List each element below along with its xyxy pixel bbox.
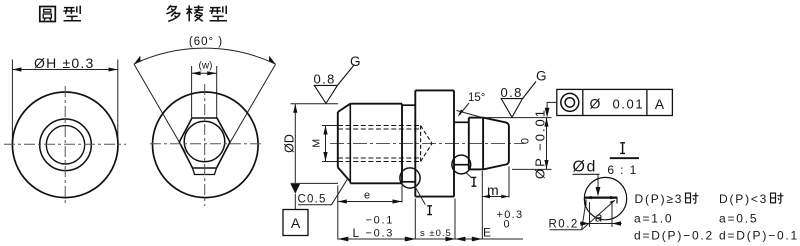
- svg-text:(w): (w): [199, 61, 213, 72]
- svg-text:D(P)≥3: D(P)≥3: [635, 192, 684, 206]
- bottom chain dim line: [338, 238, 523, 240]
- svg-text:M: M: [311, 139, 323, 148]
- svg-text:A: A: [291, 215, 301, 231]
- angle arc right arrowhead: [267, 56, 278, 65]
- svg-text:a=0.5: a=0.5: [719, 212, 758, 226]
- dimension M dim line with arrows: [325, 126, 327, 162]
- dimension PhiP top extension line: [486, 117, 552, 119]
- svg-text:a: a: [595, 209, 602, 224]
- svg-text:a=1.0: a=1.0: [634, 212, 673, 226]
- angle 15deg reference line: [457, 111, 485, 119]
- socket drill point hidden lower: [421, 144, 432, 162]
- svg-text:E: E: [483, 226, 491, 240]
- detail boundary circle: [584, 177, 626, 219]
- dimension w right extension line: [216, 66, 218, 118]
- dimension M upper extension stub: [322, 125, 338, 127]
- svg-text:G: G: [350, 54, 361, 69]
- title 圆型 (round type) char 圆: [40, 7, 56, 22]
- svg-text:A: A: [655, 96, 665, 112]
- concentricity frame box: [557, 89, 673, 115]
- svg-text:−0.3: −0.3: [366, 228, 395, 240]
- flange bottom edge: [415, 196, 454, 198]
- arrow L right: [405, 237, 416, 242]
- pilot cylinder left face: [468, 118, 470, 170]
- thread hidden line upper inner: [338, 128, 421, 130]
- svg-text:Ø: Ø: [590, 96, 601, 112]
- detail tip flat chord with arrows: [584, 197, 617, 199]
- dimension e dim line with arrows: [338, 201, 402, 203]
- datum A box: [283, 210, 308, 236]
- detail a dim line with outside arrows: [580, 223, 622, 225]
- svg-text:C0.5: C0.5: [298, 194, 327, 206]
- neck bottom edge: [402, 181, 415, 183]
- chamfer dimension underline and leader: [298, 178, 348, 205]
- taper and tip outline: [483, 118, 509, 170]
- angle dimension arc with arrows: [134, 48, 276, 64]
- svg-text:G: G: [536, 69, 547, 84]
- svg-text:(60° ): (60° ): [189, 36, 223, 48]
- round view ring inner circle: [46, 126, 84, 164]
- svg-text:ØD: ØD: [283, 134, 297, 153]
- angle right leg line through hex vertex: [224, 64, 275, 152]
- svg-text:Ød: Ød: [573, 159, 597, 176]
- dimension PhiD top extension line: [291, 103, 339, 105]
- detail a dim extension lines: [589, 202, 591, 227]
- dimension PhiP bottom extension line: [512, 168, 552, 170]
- flange top edge: [415, 89, 454, 91]
- hex socket inscribed circle: [184, 121, 225, 162]
- detail tip side walls: [584, 198, 586, 204]
- svg-text:d=D(P)−0.2: d=D(P)−0.2: [634, 229, 714, 243]
- svg-text:L: L: [353, 226, 360, 240]
- chamfer end vertical line: [349, 104, 351, 184]
- datum A connector line: [294, 194, 296, 210]
- surface finish symbol left: [314, 65, 354, 104]
- svg-text:0: 0: [504, 219, 510, 231]
- dimension e right extension line: [401, 186, 403, 203]
- detail balloon I at groove: [452, 155, 471, 174]
- dimension PhiD bottom extension line: [291, 182, 339, 184]
- bottom chain flange-left extension line: [414, 199, 416, 240]
- thread cylinder top edge: [350, 103, 402, 105]
- arrow E left: [455, 237, 466, 242]
- detail Phid underline: [573, 173, 600, 175]
- svg-text:ØP −0.01: ØP −0.01: [533, 108, 548, 179]
- dimension PhiP dim line with arrows: [546, 118, 548, 170]
- arrow s right outside: [406, 237, 415, 241]
- svg-text:15°: 15°: [468, 92, 485, 104]
- svg-text:D(P)<3: D(P)<3: [719, 192, 768, 206]
- title 多棱型 char 多: [166, 5, 179, 21]
- thread hidden line lower outer: [338, 161, 421, 163]
- surface finish symbol right: [501, 82, 536, 118]
- datum A filled triangle: [291, 184, 300, 194]
- taper base vertical line: [482, 118, 484, 170]
- pilot cylinder top edge: [469, 117, 483, 119]
- title 圆型 char 型: [63, 6, 81, 21]
- flange left face: [414, 90, 416, 196]
- part chamfer top edge: [338, 104, 351, 112]
- bottom chain flange-right extension line: [454, 199, 456, 240]
- detail R0.2 leaders: [582, 200, 587, 230]
- groove top edge: [454, 121, 469, 123]
- part chamfer bottom edge: [338, 167, 351, 181]
- thread end vertical line: [401, 104, 403, 184]
- round view outer circle: [12, 92, 118, 198]
- hex view vertical centerline: [204, 84, 206, 206]
- socket bottom hidden vertical: [420, 126, 422, 162]
- angle left leg line through hex vertex: [134, 64, 185, 152]
- groove bottom edge: [454, 164, 469, 166]
- hex socket hexagon: [179, 118, 230, 168]
- dimension PhiH right extension line: [117, 60, 119, 145]
- round view vertical centerline: [64, 86, 66, 206]
- dimension w dim line: [192, 72, 217, 74]
- thread hidden line upper outer: [338, 125, 421, 127]
- svg-text:R0.2: R0.2: [549, 218, 579, 230]
- svg-text:0.8: 0.8: [314, 72, 336, 87]
- arrow E right: [472, 237, 483, 242]
- detail R0.2 underline: [550, 229, 582, 231]
- title 多棱型 char 棱: [186, 5, 203, 21]
- thread cylinder bottom edge: [350, 182, 402, 184]
- detail scale label I over 6:1: [620, 143, 625, 154]
- detail Phid leader with arrow: [597, 174, 599, 193]
- svg-text:+0.3: +0.3: [497, 209, 524, 221]
- thread hidden line lower inner: [338, 157, 421, 159]
- dimension PhiH left extension line: [11, 60, 13, 145]
- socket drill point hidden upper: [421, 126, 432, 144]
- svg-text:s ±0.5: s ±0.5: [420, 228, 452, 239]
- svg-text:6 : 1: 6 : 1: [607, 163, 637, 177]
- dimension M lower extension stub: [322, 161, 338, 163]
- dimension m dim line with arrows: [482, 196, 509, 198]
- neck top edge: [402, 104, 415, 106]
- dimension PhiH dim line with arrows: [12, 69, 117, 71]
- detail balloon I at thread end: [400, 168, 420, 188]
- svg-text:ØH ±0.3: ØH ±0.3: [34, 55, 94, 71]
- main view axis centerline: [330, 143, 524, 145]
- arrow L left: [338, 237, 349, 242]
- angle 15deg leader with arrow: [459, 103, 469, 115]
- bottom chain left extension line: [337, 186, 339, 240]
- svg-text:0.01: 0.01: [613, 97, 645, 112]
- concentricity frame leader: [547, 102, 557, 115]
- arrow s left at flange-right: [446, 237, 456, 242]
- dimension m right extension line: [508, 167, 510, 198]
- bottom chain taper-start extension line: [481, 171, 483, 240]
- hex socket bottom cone line: [193, 168, 217, 175]
- flange right face: [453, 90, 455, 196]
- hex view horizontal centerline: [150, 143, 262, 145]
- svg-text:−0.1: −0.1: [366, 215, 395, 227]
- round view ring outer circle: [40, 119, 92, 171]
- concentricity symbol circles: [561, 93, 579, 111]
- svg-text:0: 0: [520, 138, 532, 144]
- round view horizontal centerline: [4, 143, 126, 145]
- part outline left end face: [337, 112, 339, 167]
- svg-text:d=D(P)−0.1: d=D(P)−0.1: [719, 229, 799, 243]
- dimension PhiD dim line with top arrow: [294, 104, 296, 184]
- angle arc left arrowhead: [132, 56, 143, 65]
- svg-text:0.8: 0.8: [501, 85, 523, 100]
- pilot cylinder bottom edge: [469, 168, 483, 170]
- hex view outer circle: [153, 92, 259, 198]
- dimension w left extension line: [191, 66, 193, 118]
- svg-text:e: e: [364, 190, 370, 202]
- title 多棱型 char 型: [209, 6, 227, 21]
